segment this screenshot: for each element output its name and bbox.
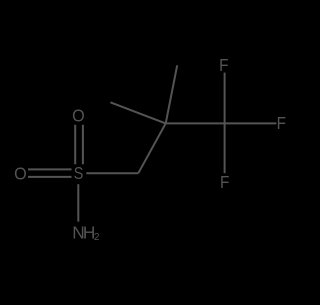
wire C2-C3 bond <box>166 122 225 124</box>
wire C2 methyl bond 2 <box>110 102 165 123</box>
wire C3-F right bond <box>225 122 277 124</box>
svg-text:O: O <box>14 164 27 184</box>
svg-text:2: 2 <box>94 232 100 243</box>
svg-text:S: S <box>74 164 84 184</box>
wire C1-C2 bond <box>138 123 165 173</box>
svg-text:F: F <box>220 172 229 192</box>
wire C3-F top bond <box>224 73 226 124</box>
svg-text:O: O <box>72 106 85 126</box>
svg-text:F: F <box>277 113 286 133</box>
wire S-C1 bond <box>86 172 138 174</box>
svg-text:F: F <box>219 55 228 75</box>
wire C3-F bottom bond <box>224 123 226 173</box>
wire S-N bond <box>77 184 79 221</box>
wire S=O top double bond <box>75 125 83 165</box>
wire S=O left double bond <box>28 169 72 177</box>
wire C2 methyl bond 1 <box>166 65 178 123</box>
